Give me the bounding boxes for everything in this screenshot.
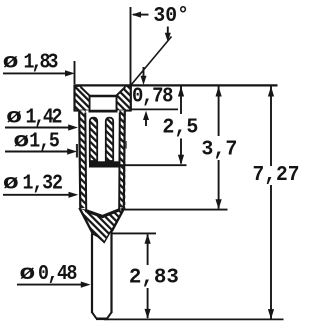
svg-text:ø: ø (13, 130, 29, 154)
svg-text:2,83: 2,83 (129, 265, 179, 289)
svg-text:ø: ø (3, 172, 19, 196)
svg-text:2,5: 2,5 (162, 116, 198, 140)
svg-text:ø: ø (6, 106, 22, 130)
svg-text:1,42: 1,42 (26, 104, 63, 129)
svg-text:1,5: 1,5 (29, 128, 60, 153)
svg-text:1,83: 1,83 (24, 49, 59, 74)
svg-text:30°: 30° (153, 4, 189, 28)
svg-text:1,32: 1,32 (23, 170, 63, 195)
svg-text:ø: ø (3, 51, 19, 75)
svg-text:0,78: 0,78 (132, 85, 174, 109)
svg-text:3,7: 3,7 (201, 138, 237, 162)
svg-text:ø: ø (19, 262, 35, 286)
svg-text:7,27: 7,27 (253, 163, 300, 187)
svg-text:0,48: 0,48 (38, 261, 78, 286)
